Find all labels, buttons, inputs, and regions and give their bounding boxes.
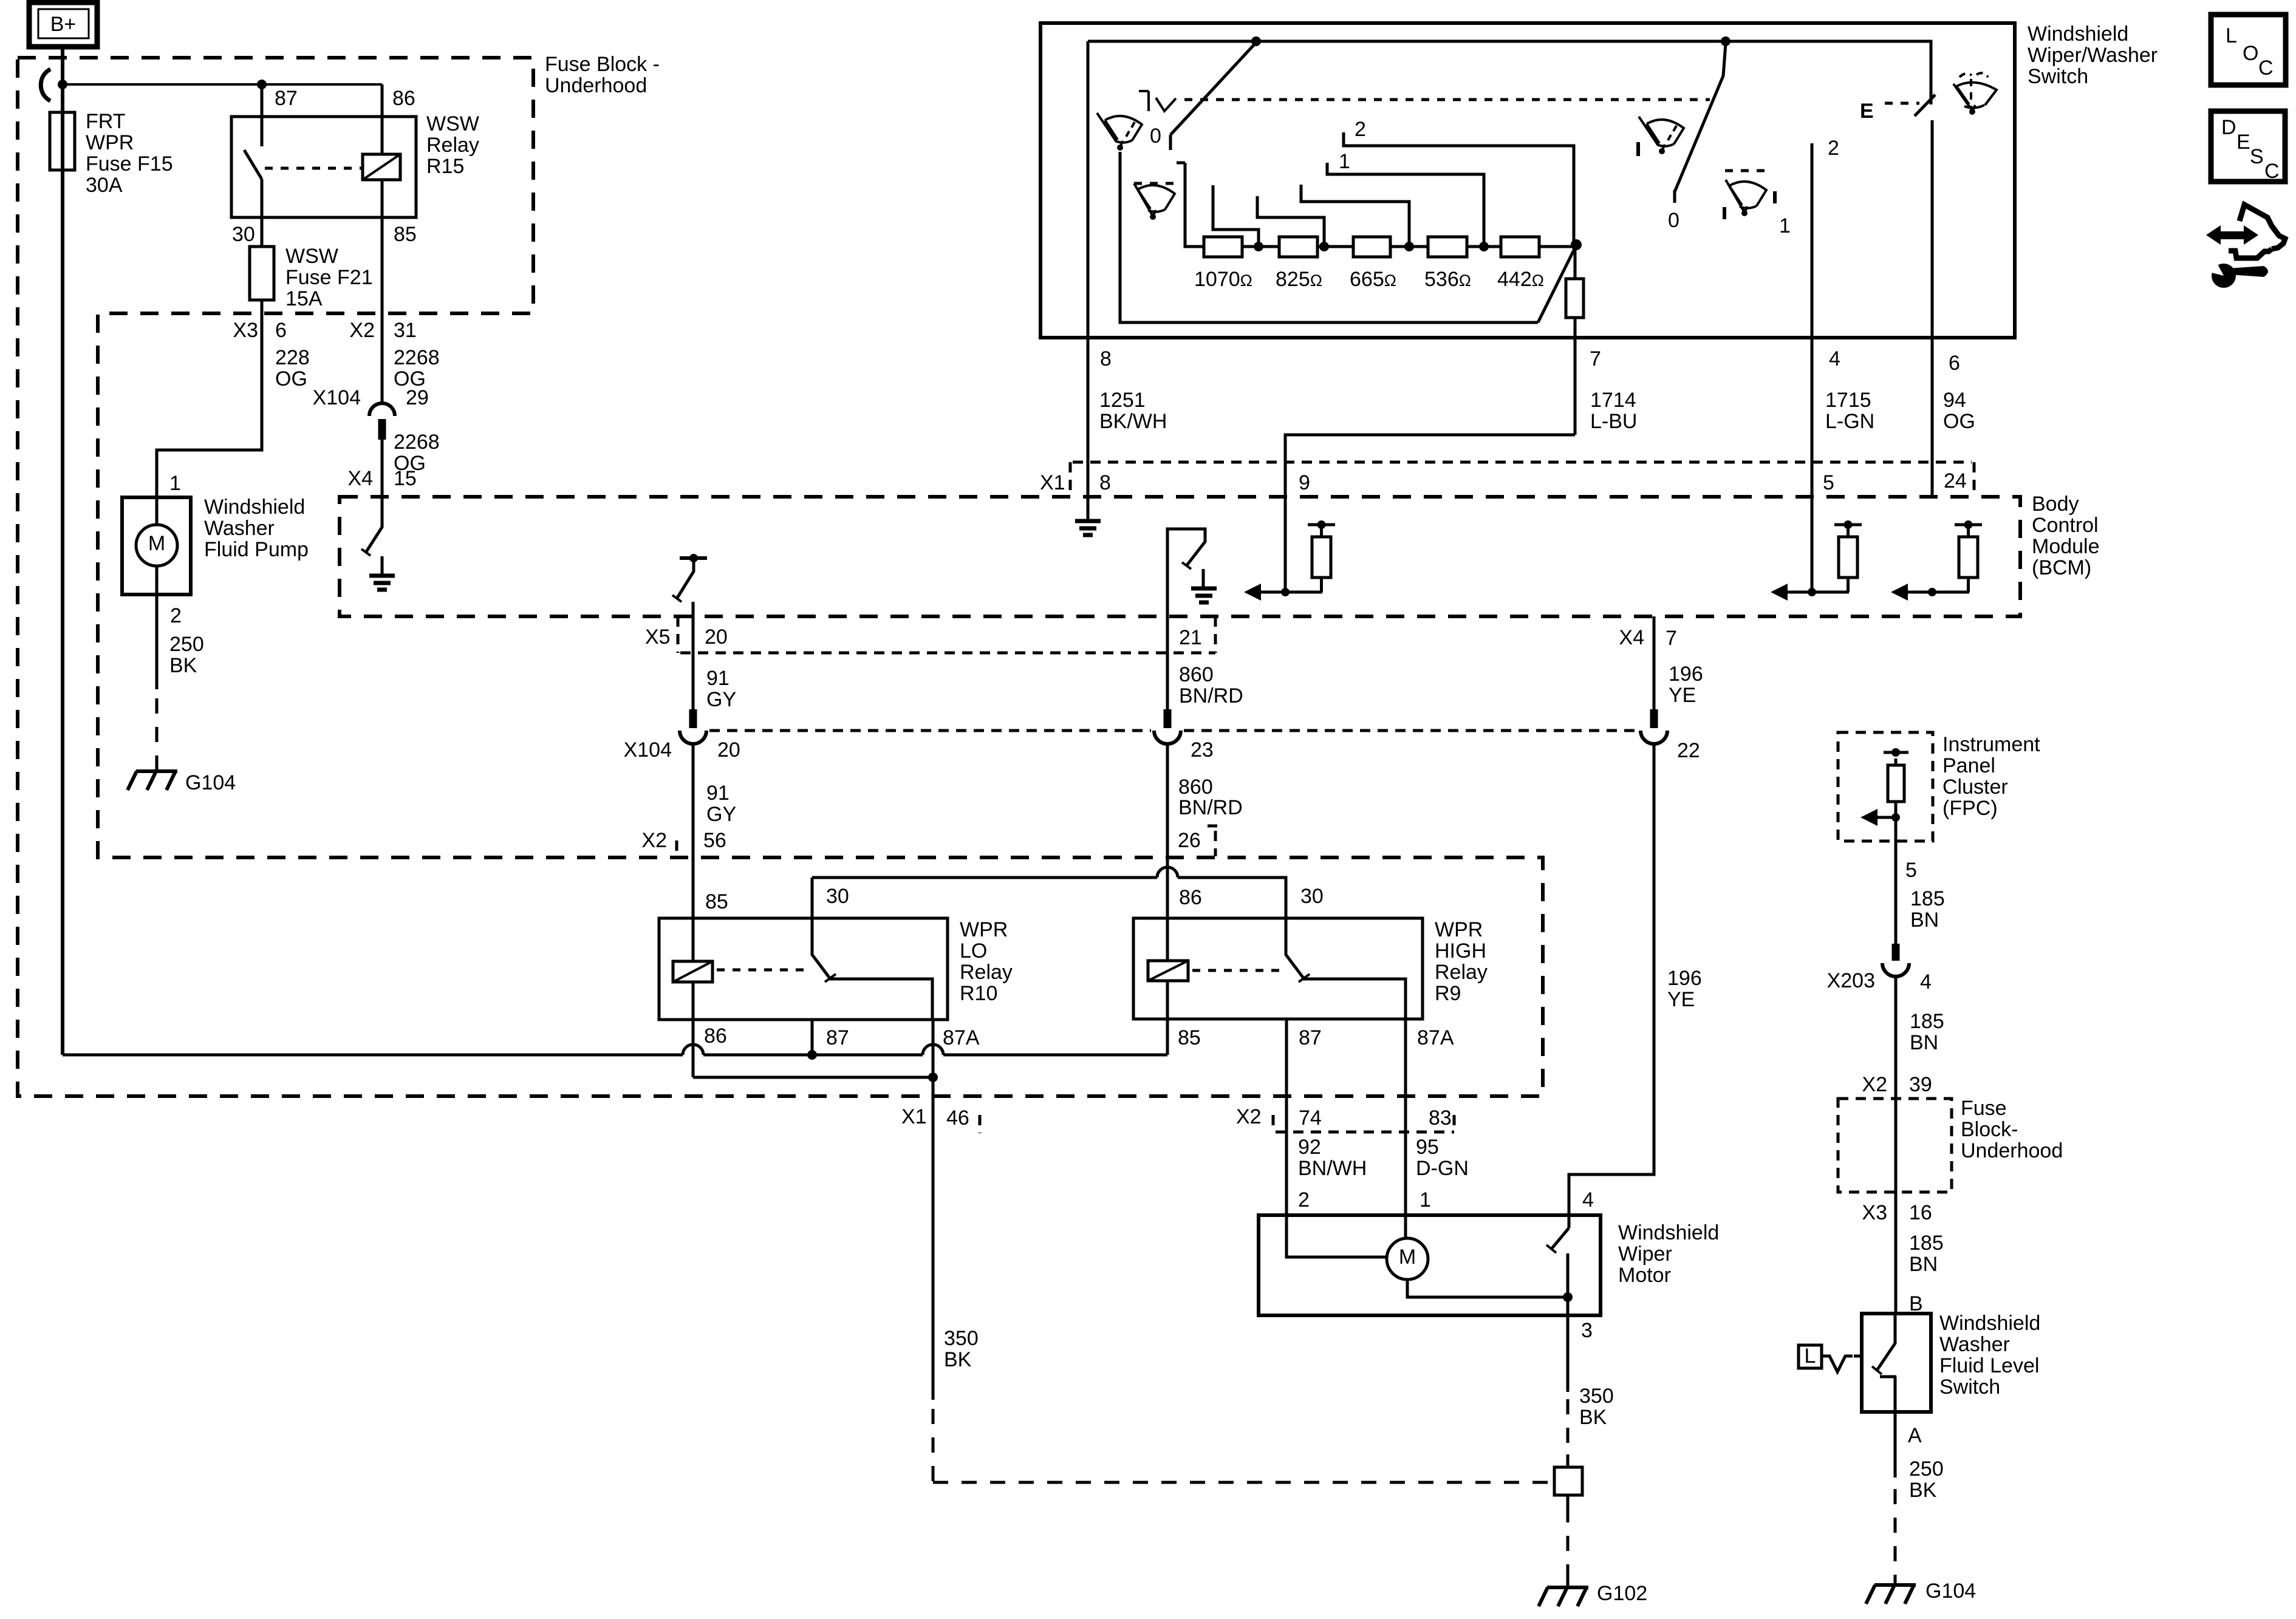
legend wrench icon [2212,264,2236,288]
internal bus [1088,41,1931,104]
svg-text:WPR: WPR [86,131,134,154]
svg-text:Windshield: Windshield [1618,1221,1719,1244]
svg-text:X104: X104 [624,738,672,762]
legend double arrow [2206,225,2221,245]
ground G104 (right) [1866,1585,1916,1604]
legend car profile icon [2240,205,2285,249]
svg-text:GY: GY [706,688,736,711]
svg-text:860: 860 [1179,663,1214,686]
svg-text:BN: BN [1910,908,1939,932]
svg-text:30A: 30A [86,174,123,197]
svg-text:0: 0 [1150,124,1161,148]
svg-text:WPR: WPR [960,918,1008,941]
svg-text:OG: OG [1943,410,1975,433]
svg-text:A: A [1908,1424,1922,1447]
svg-text:91: 91 [706,667,729,690]
R9 pin 87 wire to motor 2 [1285,1020,1288,1215]
svg-text:8: 8 [1099,471,1111,494]
svg-text:85: 85 [394,223,417,246]
svg-text:22: 22 [1677,739,1700,762]
svg-text:X1: X1 [1040,471,1065,494]
svg-text:8: 8 [1100,347,1112,370]
svg-text:4: 4 [1920,970,1932,994]
svg-text:X2: X2 [1862,1073,1887,1096]
wire 196 YE to motor [1569,744,1654,1228]
BCM input pin 9 [1260,591,1322,594]
svg-text:0: 0 [1668,209,1679,232]
link R10-86 to 87A (L2) [693,1076,933,1079]
svg-text:Windshield: Windshield [204,496,305,519]
svg-text:350: 350 [1579,1385,1614,1408]
svg-text:1: 1 [1420,1188,1431,1212]
svg-text:(BCM): (BCM) [2032,556,2091,579]
svg-text:185: 185 [1909,1232,1944,1255]
connector X104 row [709,729,1638,732]
svg-text:Control: Control [2032,514,2099,537]
svg-text:G104: G104 [1925,1580,1976,1603]
svg-text:1714: 1714 [1590,389,1636,412]
svg-text:X2: X2 [349,319,375,342]
svg-text:Windshield: Windshield [1939,1312,2040,1335]
svg-text:1: 1 [169,472,181,495]
svg-text:21: 21 [1179,626,1202,649]
svg-text:Fuse: Fuse [1961,1097,2007,1120]
R15 switch blade [244,150,262,217]
BCM dashed box [340,497,2020,616]
level sensor L symbol [1799,1345,1822,1368]
svg-text:FRT: FRT [86,110,125,133]
svg-text:196: 196 [1669,663,1703,686]
svg-text:Wiper: Wiper [1618,1242,1672,1266]
svg-text:BN: BN [1910,1031,1938,1054]
Fuse Block - Underhood dashed outline [18,58,1543,1096]
svg-text:4: 4 [1829,347,1840,370]
contact 2 / wire pin 4 [1811,143,1814,592]
svg-text:85: 85 [1178,1026,1201,1049]
wire 2268 OG (lower) [381,440,384,497]
R9 switch [1286,918,1406,1020]
svg-text:R15: R15 [426,155,464,178]
svg-text:228: 228 [275,346,310,369]
wire pin 8 [1087,41,1090,497]
svg-text:1251: 1251 [1099,389,1146,412]
relay R15 WSW box [231,117,416,217]
connector X5 row [678,616,1215,653]
svg-text:30: 30 [232,223,255,246]
svg-text:23: 23 [1191,738,1214,762]
svg-text:185: 185 [1910,887,1945,910]
svg-text:BK: BK [1579,1406,1607,1429]
svg-text:GY: GY [706,803,736,826]
svg-text:WPR: WPR [1435,918,1483,941]
svg-text:WSW: WSW [426,112,479,135]
svg-text:2: 2 [170,604,182,627]
svg-text:Body: Body [2032,493,2079,516]
svg-text:5: 5 [1823,471,1834,494]
ground (BCM pin 8) [1087,497,1090,519]
BCM input pin 5 [1786,591,1849,594]
svg-text:Relay: Relay [426,134,479,157]
svg-text:Module: Module [2032,535,2100,558]
svg-text:15: 15 [394,467,417,490]
ground G102 [1539,1587,1588,1606]
svg-text:825Ω: 825Ω [1276,268,1322,291]
svg-text:74: 74 [1299,1106,1322,1130]
svg-text:29: 29 [406,386,429,409]
svg-text:24: 24 [1944,469,1967,493]
wiper icon (intermittent) [1134,182,1175,185]
wire B+ vertical feed [61,47,64,1055]
svg-text:R9: R9 [1435,982,1461,1005]
resistor (wiper feed) vertical [1566,279,1584,318]
svg-text:83: 83 [1429,1106,1452,1130]
svg-text:92: 92 [1298,1136,1321,1159]
svg-text:G104: G104 [185,771,236,794]
svg-text:R10: R10 [960,982,997,1005]
R10 pin 87A wire to X1 46 [932,1020,935,1400]
wiper icon (slow, right) [1639,117,1684,154]
svg-text:2: 2 [1298,1188,1310,1212]
svg-text:2: 2 [1828,137,1839,160]
svg-text:Panel: Panel [1942,754,1995,777]
BCM X4 switch to ground [366,497,382,553]
node wash switch pivot [1251,36,1261,46]
svg-text:G102: G102 [1597,1582,1647,1605]
svg-text:(FPC): (FPC) [1942,797,1998,820]
svg-text:OG: OG [275,367,307,390]
svg-text:30: 30 [826,885,849,908]
svg-text:1: 1 [1339,150,1350,173]
svg-text:9: 9 [1299,471,1310,494]
svg-text:1070Ω: 1070Ω [1194,268,1252,291]
splice S-box [1554,1467,1582,1495]
svg-text:2268: 2268 [394,431,440,454]
Fuse Block-Underhood dashed box (right) [1838,1099,1952,1192]
legend DESC box [2211,111,2285,182]
right mode switch blade [1675,44,1726,203]
svg-text:Fluid Pump: Fluid Pump [204,538,309,561]
svg-text:4: 4 [1582,1188,1594,1212]
svg-text:Switch: Switch [2028,65,2088,88]
svg-text:X4: X4 [1619,626,1644,649]
washer fluid level switch box [1862,1314,1931,1412]
svg-text:442Ω: 442Ω [1497,268,1544,291]
svg-text:X4: X4 [347,467,373,490]
svg-text:BK: BK [169,654,197,677]
svg-text:X1: X1 [901,1105,927,1128]
connector X2 row (56/26) [675,840,678,856]
contact 1 (right switch) [1773,191,1777,203]
svg-text:Instrument: Instrument [1942,733,2040,756]
FPC indicator resistor [1884,751,1908,754]
svg-text:X104: X104 [313,386,361,409]
svg-text:S: S [2250,145,2264,168]
legend LOC box [2211,15,2286,85]
svg-text:BN: BN [1909,1253,1938,1276]
svg-text:39: 39 [1909,1073,1932,1096]
svg-text:Cluster: Cluster [1942,775,2008,799]
BCM pin 21 output switch [1167,529,1205,616]
pin 30 [261,217,264,247]
wire icon pivot to wiper arm rail [1120,152,1538,322]
R10 pin 86 [692,1020,695,1077]
svg-text:BK: BK [944,1348,972,1371]
wire 7 jog to BCM pin 9 [1285,435,1575,592]
R9 pin 87A wire to motor 1 [1404,1020,1407,1215]
svg-text:L: L [1805,1345,1816,1368]
wire 185 BN (2) [1895,975,1898,1314]
svg-text:Underhood: Underhood [1961,1139,2063,1162]
svg-text:31: 31 [394,319,417,342]
svg-text:860: 860 [1178,775,1213,799]
svg-text:Relay: Relay [1435,961,1488,984]
svg-text:X203: X203 [1827,969,1875,992]
svg-text:2268: 2268 [394,346,440,369]
svg-text:665Ω: 665Ω [1350,268,1396,291]
pin 85 [381,180,384,403]
svg-text:3: 3 [1581,1319,1593,1342]
svg-text:86: 86 [704,1024,727,1048]
svg-text:D: D [2221,116,2236,139]
svg-text:Wiper/Washer: Wiper/Washer [2028,44,2158,67]
svg-text:7: 7 [1666,627,1677,650]
svg-text:30: 30 [1300,885,1324,908]
svg-text:M: M [148,532,165,555]
svg-text:L-GN: L-GN [1825,410,1874,433]
svg-text:E: E [1860,100,1874,123]
washer icon (double) [1953,73,1997,115]
svg-text:1715: 1715 [1825,389,1871,412]
svg-text:56: 56 [703,829,726,852]
washer nozzle icon [1139,91,1176,111]
relay R10 WPR LO box [659,918,948,1020]
splice arc at B+ junction [41,69,50,101]
motor M [1387,1238,1428,1280]
washer fluid pump box [122,497,191,595]
BCM pin 20 output switch [680,556,707,560]
svg-text:Fuse F21: Fuse F21 [285,266,373,289]
svg-text:BN/RD: BN/RD [1179,684,1243,707]
wire 250 BK (level switch) [1894,1412,1897,1478]
R10 coil [692,857,695,1020]
resistor 825 [1279,237,1317,257]
svg-text:20: 20 [705,625,728,649]
svg-text:6: 6 [1949,352,1960,375]
resistor ladder rail [1177,163,1576,247]
svg-text:Fuse Block -: Fuse Block - [545,53,660,76]
R15 coil [363,154,400,180]
svg-text:Fluid Level: Fluid Level [1939,1354,2039,1377]
gang link dashed [1184,98,1710,101]
fuse F15 FRT WPR 30A [50,112,75,170]
ground G104 (pump) [128,771,177,790]
wiper icon (low) [1097,113,1142,151]
svg-text:7: 7 [1590,347,1601,370]
relay R9 WPR HIGH box [1133,918,1423,1019]
svg-text:YE: YE [1667,988,1695,1011]
Windshield Wiper/Washer Switch box [1040,23,2015,338]
svg-text:87A: 87A [1417,1026,1454,1049]
resistor 665 [1353,237,1390,257]
svg-text:86: 86 [1179,886,1202,909]
wire pin 6 [1931,120,1934,497]
wire 860 BN/RD (lower) [1166,744,1169,961]
svg-text:86: 86 [392,87,415,110]
svg-text:350: 350 [944,1327,979,1350]
svg-text:Fuse F15: Fuse F15 [86,152,173,176]
Instrument Panel Cluster dashed box [1838,732,1933,841]
svg-text:5: 5 [1905,859,1917,882]
selector blade [1538,245,1576,322]
svg-text:Block-: Block- [1961,1118,2018,1141]
node B+ junction [58,80,67,89]
svg-text:M: M [1399,1246,1416,1269]
motor M (washer pump) [136,525,177,566]
svg-text:Washer: Washer [1939,1333,2010,1356]
svg-text:B+: B+ [50,13,77,36]
level switch blade [1876,1314,1895,1371]
svg-text:87A: 87A [943,1026,980,1049]
svg-text:X5: X5 [645,625,671,649]
svg-text:LO: LO [960,939,987,963]
svg-text:16: 16 [1909,1201,1932,1224]
svg-text:87: 87 [275,87,298,110]
svg-text:X3: X3 [1862,1201,1887,1224]
connector X1 row [1073,461,1972,464]
svg-text:26: 26 [1178,829,1201,852]
svg-text:250: 250 [169,633,204,656]
svg-text:Switch: Switch [1939,1375,2000,1399]
connector X203 pin 4 [1892,944,1900,961]
motor pin 3 [1567,1297,1570,1392]
svg-text:Motor: Motor [1618,1264,1671,1287]
svg-text:20: 20 [717,738,740,762]
svg-text:95: 95 [1416,1136,1439,1159]
wire 860 BN/RD [1166,616,1169,709]
svg-text:85: 85 [705,890,728,913]
R10 switch [812,878,932,1020]
BCM input pin 24 [1907,591,1969,594]
wire 196 YE upper [1653,616,1656,709]
svg-text:O: O [2243,42,2258,65]
resistor 442 [1501,237,1539,257]
svg-text:X3: X3 [233,319,258,342]
svg-text:2: 2 [1355,118,1366,141]
R10 coil link dashed [717,969,805,972]
wire to relay R15 [63,83,382,86]
svg-text:BK: BK [1909,1479,1937,1502]
30-30 link [812,878,1286,918]
svg-text:D-GN: D-GN [1416,1157,1469,1180]
svg-text:C: C [2258,56,2274,80]
svg-text:BK/WH: BK/WH [1099,410,1167,433]
wire 91 GY (lower) [692,744,695,961]
svg-text:Windshield: Windshield [2028,22,2128,46]
wire 250 BK [155,595,159,689]
svg-text:94: 94 [1943,389,1966,412]
wire 185 BN [1895,841,1898,944]
node mode switch pivot [1721,36,1731,46]
contact 2 [1344,132,1574,245]
svg-text:196: 196 [1667,967,1702,990]
R10 pin 87 [811,1020,814,1055]
B+ battery terminal [29,2,97,47]
svg-text:BN/WH: BN/WH [1298,1157,1367,1180]
contact 1 [1327,163,1484,247]
svg-text:46: 46 [946,1106,969,1130]
pin 87 [261,84,264,146]
svg-text:L-BU: L-BU [1590,410,1637,433]
svg-text:91: 91 [706,782,729,805]
svg-text:WSW: WSW [285,245,338,268]
B+ feed line L1 with hops [63,1054,1167,1057]
svg-text:87: 87 [826,1026,849,1049]
wiper icon (fast, right) [1725,169,1765,172]
FPC arrow [1877,816,1896,819]
contact stub near icon4 [1723,207,1726,219]
motor park switch [1407,1228,1569,1297]
svg-text:6: 6 [275,319,287,342]
wash switch blade [1170,43,1256,150]
svg-text:YE: YE [1669,684,1696,707]
svg-text:Relay: Relay [960,961,1013,984]
R9 coil [1166,857,1169,1055]
wire fuse F21 to washer pump [157,300,262,497]
svg-text:1: 1 [1779,214,1791,237]
svg-text:185: 185 [1910,1010,1944,1033]
svg-text:E: E [2236,131,2250,154]
resistor 1070 [1204,237,1242,257]
wiper motor box [1259,1215,1601,1315]
svg-text:X2: X2 [1236,1105,1262,1128]
resistor 536 [1428,237,1467,257]
fuse F21 WSW 15A [250,247,274,300]
ladder contact steps [1213,185,1259,247]
svg-text:87: 87 [1299,1026,1322,1049]
svg-text:BN/RD: BN/RD [1178,796,1243,819]
svg-text:15A: 15A [285,287,323,310]
svg-text:Underhood: Underhood [545,74,647,97]
svg-text:X2: X2 [641,829,667,852]
contact stub near icon3 [1636,142,1640,156]
svg-text:L: L [2226,24,2237,47]
svg-text:536Ω: 536Ω [1424,268,1471,291]
R15 coil link dashed [265,167,363,170]
svg-text:HIGH: HIGH [1435,939,1486,963]
pin 86 [381,84,384,154]
svg-text:Washer: Washer [204,517,275,540]
svg-text:C: C [2264,160,2280,183]
svg-text:250: 250 [1909,1457,1944,1481]
